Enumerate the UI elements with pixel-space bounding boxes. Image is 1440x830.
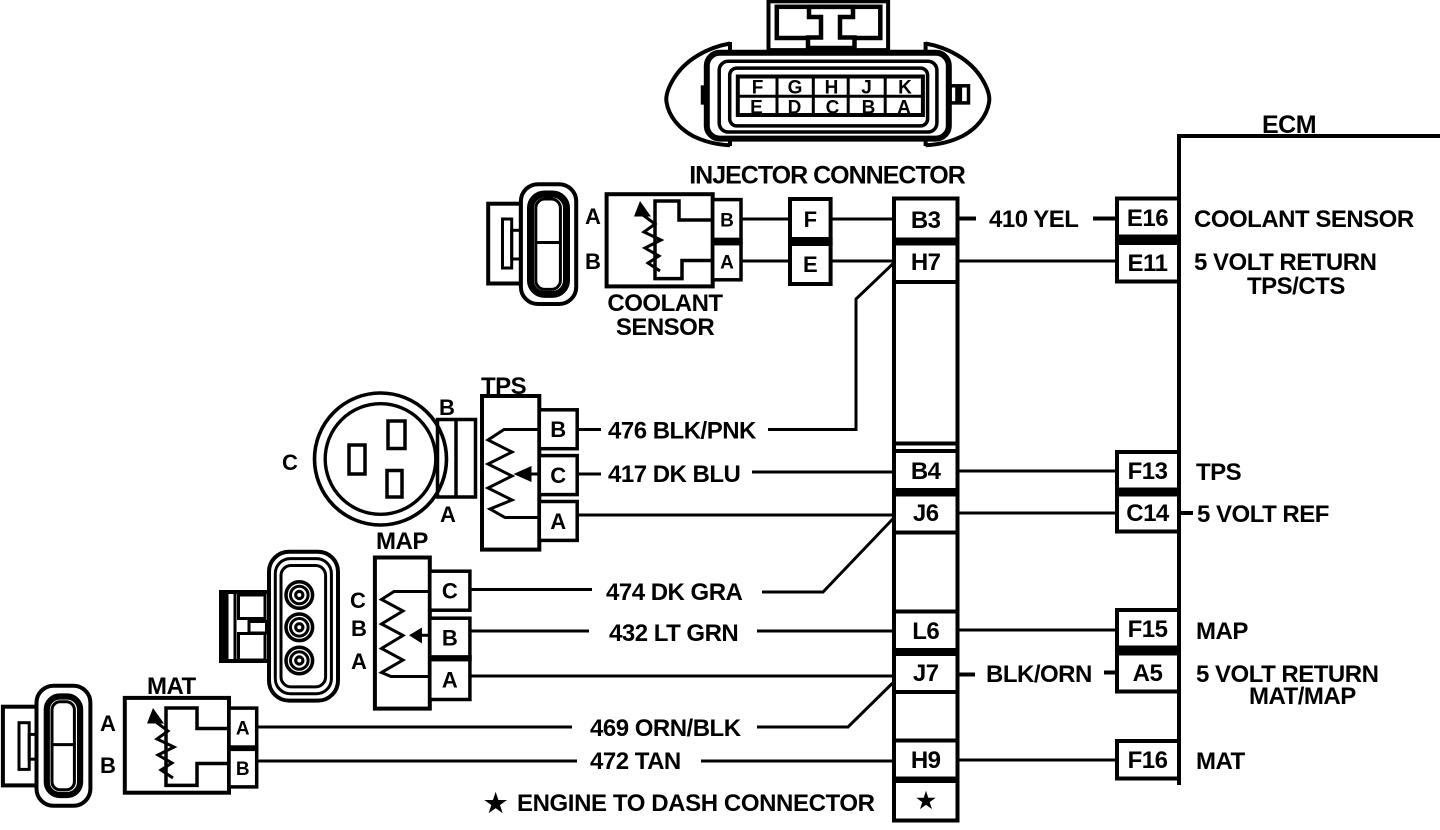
svg-text:A5: A5 (1133, 660, 1163, 687)
svg-text:F: F (804, 207, 817, 232)
svg-text:410 YEL: 410 YEL (989, 206, 1078, 233)
svg-text:C: C (550, 463, 566, 488)
svg-text:B3: B3 (911, 207, 941, 234)
svg-text:L6: L6 (912, 618, 939, 645)
svg-text:A: A (585, 204, 601, 229)
svg-text:C: C (282, 450, 298, 475)
svg-text:F16: F16 (1128, 747, 1168, 774)
svg-text:J6: J6 (913, 500, 939, 527)
svg-text:C: C (826, 98, 840, 119)
svg-text:B: B (442, 626, 458, 651)
svg-text:A: A (236, 719, 250, 740)
svg-text:MAT/MAP: MAT/MAP (1249, 683, 1356, 710)
svg-text:A: A (440, 502, 456, 527)
svg-text:COOLANT SENSOR: COOLANT SENSOR (1194, 206, 1414, 233)
svg-text:474 DK GRA: 474 DK GRA (606, 579, 743, 606)
svg-text:B: B (439, 395, 455, 420)
svg-text:SENSOR: SENSOR (616, 314, 715, 341)
svg-text:B: B (236, 759, 250, 780)
svg-text:TPS/CTS: TPS/CTS (1247, 273, 1345, 300)
svg-text:J: J (861, 78, 872, 99)
svg-text:432 LT GRN: 432 LT GRN (609, 620, 738, 647)
svg-text:417 DK BLU: 417 DK BLU (608, 461, 740, 488)
svg-text:TPS: TPS (1196, 459, 1242, 486)
svg-text:TPS: TPS (481, 373, 527, 400)
svg-text:5 VOLT RETURN: 5 VOLT RETURN (1194, 249, 1376, 276)
svg-text:H9: H9 (911, 747, 941, 774)
svg-text:B: B (585, 249, 601, 274)
svg-text:A: A (550, 509, 566, 534)
svg-text:B: B (862, 98, 876, 119)
svg-text:MAT: MAT (147, 673, 197, 700)
svg-text:G: G (788, 78, 803, 99)
svg-text:A: A (351, 649, 367, 674)
svg-text:ENGINE TO DASH CONNECTOR: ENGINE TO DASH CONNECTOR (517, 790, 875, 817)
svg-text:H: H (825, 78, 839, 99)
svg-text:B: B (720, 210, 734, 231)
svg-text:A: A (442, 667, 458, 692)
svg-text:F15: F15 (1128, 616, 1168, 643)
svg-text:K: K (898, 78, 912, 99)
svg-text:BLK/ORN: BLK/ORN (986, 661, 1092, 688)
svg-text:C: C (442, 579, 458, 604)
svg-text:A: A (100, 711, 116, 736)
svg-text:B: B (351, 616, 367, 641)
svg-text:ECM: ECM (1262, 111, 1316, 139)
svg-text:MAT: MAT (1196, 748, 1246, 775)
svg-text:E16: E16 (1127, 205, 1168, 232)
svg-text:D: D (788, 98, 802, 119)
svg-text:H7: H7 (911, 249, 941, 276)
svg-text:INJECTOR CONNECTOR: INJECTOR CONNECTOR (689, 162, 966, 190)
svg-text:B4: B4 (911, 458, 942, 485)
svg-text:J7: J7 (913, 660, 939, 687)
svg-text:469 ORN/BLK: 469 ORN/BLK (590, 715, 742, 742)
svg-text:B: B (550, 417, 566, 442)
svg-text:E11: E11 (1128, 250, 1168, 277)
svg-text:476 BLK/PNK: 476 BLK/PNK (608, 418, 757, 445)
svg-text:B: B (100, 753, 116, 778)
svg-text:★: ★ (484, 788, 508, 818)
svg-text:A: A (720, 253, 734, 274)
svg-text:F: F (752, 78, 764, 99)
svg-text:A: A (897, 98, 911, 119)
svg-text:C: C (350, 588, 366, 613)
svg-text:★: ★ (916, 788, 936, 813)
svg-text:5 VOLT REF: 5 VOLT REF (1197, 501, 1329, 528)
svg-text:C14: C14 (1126, 500, 1170, 527)
svg-text:E: E (750, 98, 763, 119)
svg-text:MAP: MAP (376, 528, 428, 555)
svg-text:472 TAN: 472 TAN (590, 748, 681, 775)
svg-text:F13: F13 (1128, 458, 1168, 485)
svg-text:MAP: MAP (1196, 618, 1248, 645)
svg-text:COOLANT: COOLANT (607, 290, 723, 317)
svg-text:E: E (803, 252, 818, 277)
